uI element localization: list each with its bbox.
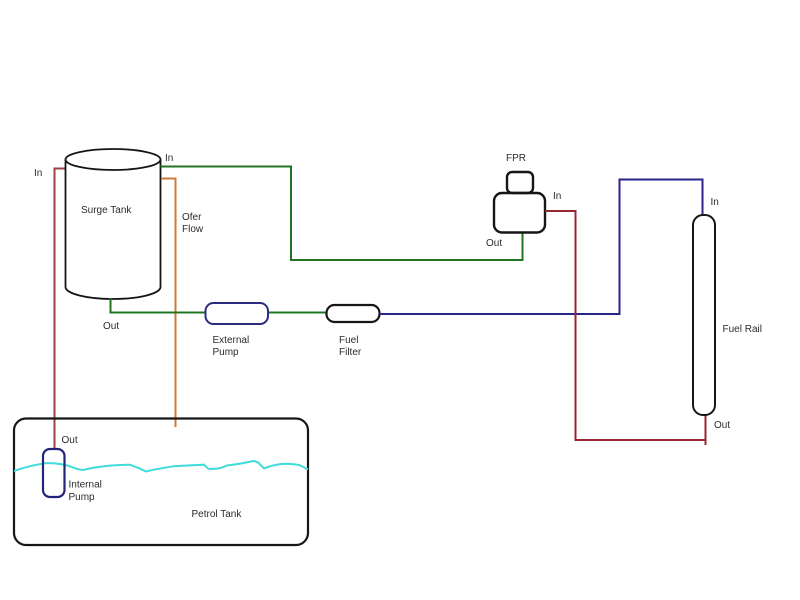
svg-text:In: In xyxy=(553,191,561,202)
svg-text:Out: Out xyxy=(486,238,502,249)
svg-text:Ofer: Ofer xyxy=(182,212,202,223)
svg-text:In: In xyxy=(165,153,173,164)
fuel rail U3 xyxy=(693,215,715,415)
wire green feed (surge tank Out to external pump) xyxy=(111,298,206,313)
svg-text:FPR: FPR xyxy=(506,153,526,164)
svg-text:Flow: Flow xyxy=(182,224,204,235)
wire red overshoot stub xyxy=(705,440,707,445)
svg-text:Pump: Pump xyxy=(69,492,96,503)
fuel filter F1 xyxy=(327,305,380,322)
svg-text:In: In xyxy=(34,168,42,179)
wire green (external pump to fuel filter) xyxy=(268,312,327,314)
svg-text:Out: Out xyxy=(714,420,730,431)
fuel level wave xyxy=(14,461,308,472)
wire orange overflow (surge tank to petrol tank) xyxy=(161,179,176,428)
svg-text:Petrol Tank: Petrol Tank xyxy=(192,509,243,520)
svg-text:Fuel: Fuel xyxy=(339,335,358,346)
wire green return (FPR Out to surge tank In) xyxy=(161,167,523,261)
svg-text:Filter: Filter xyxy=(339,347,362,358)
svg-text:Internal: Internal xyxy=(69,480,102,491)
petrol tank T1 xyxy=(14,419,308,546)
surge tank U1 xyxy=(66,149,161,299)
svg-text:Surge Tank: Surge Tank xyxy=(81,205,132,216)
svg-text:Out: Out xyxy=(62,435,78,446)
wire dark-red surge-tank In (from internal pump up to surge tank left) xyxy=(55,169,66,451)
svg-text:Out: Out xyxy=(103,321,119,332)
svg-text:Fuel Rail: Fuel Rail xyxy=(723,324,762,335)
FPR U2 xyxy=(494,172,545,233)
wire red (fuel rail Out to FPR In) xyxy=(545,211,706,440)
svg-text:Pump: Pump xyxy=(213,347,240,358)
wire blue (fuel filter to fuel rail In) xyxy=(380,180,703,315)
svg-text:In: In xyxy=(711,197,719,208)
svg-text:External: External xyxy=(213,335,250,346)
external pump P1 xyxy=(206,303,269,324)
internal pump P2 xyxy=(43,449,65,497)
